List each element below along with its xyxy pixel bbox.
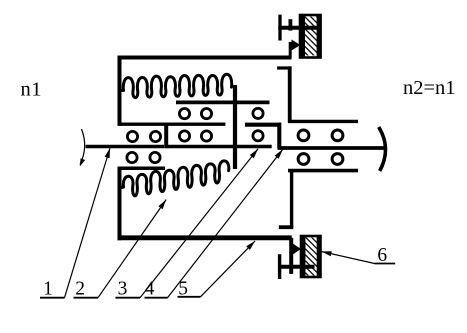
- svg-text:1: 1: [43, 279, 53, 300]
- svg-text:6: 6: [377, 245, 387, 266]
- svg-text:5: 5: [178, 279, 188, 300]
- svg-text:n2=n1: n2=n1: [403, 77, 456, 99]
- svg-text:4: 4: [145, 279, 155, 300]
- svg-text:3: 3: [118, 279, 128, 300]
- svg-text:n1: n1: [21, 79, 43, 101]
- svg-text:2: 2: [75, 279, 85, 300]
